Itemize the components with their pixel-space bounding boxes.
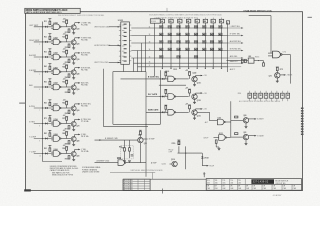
junction row 8: [42, 138, 43, 139]
svg-text:CHK: CHK: [230, 188, 233, 190]
svg-text:R VERT SEL: R VERT SEL: [230, 34, 240, 36]
NAND gate U20A: [53, 39, 61, 45]
wire U135 out: [176, 96, 189, 98]
svg-text:Q116: Q116: [162, 164, 166, 166]
svg-text:7704A MODE SWITCH LOGIC: 7704A MODE SWITCH LOGIC: [243, 10, 272, 13]
svg-text:R93: R93: [65, 159, 68, 161]
svg-text:R95: R95: [119, 146, 122, 148]
resistor R92 pull-up: [66, 147, 68, 150]
diode CR61: [45, 107, 47, 109]
svg-text:Q81: Q81: [243, 132, 246, 134]
wire collector row 6: [74, 104, 76, 107]
NAND gate U90A: [53, 151, 61, 157]
wire left drop: [112, 72, 114, 125]
diode CR113 matrix: [194, 33, 198, 36]
ground row 4: [72, 78, 75, 79]
wire bus IC to matrix: [131, 27, 154, 29]
diode CR135 matrix: [194, 56, 198, 59]
wire matrix right bus: [227, 23, 229, 73]
svg-text:R75: R75: [280, 69, 283, 71]
svg-text:Q10: Q10: [76, 29, 79, 31]
svg-text:B HOR SEL: B HOR SEL: [81, 67, 91, 69]
+5V bus wire: [42, 22, 44, 162]
wire branch out: [202, 165, 208, 167]
svg-text:ADD SEL: ADD SEL: [81, 82, 89, 85]
svg-text:B SWP: B SWP: [149, 139, 156, 141]
transistor Q80: [243, 118, 248, 123]
junction center drop: [145, 124, 146, 125]
svg-text:CHK: CHK: [215, 188, 218, 190]
transistor Q75: [275, 73, 280, 78]
NAND gate U30A: [53, 54, 61, 60]
wire U130 out: [176, 78, 189, 80]
NAND gate U130A: [168, 76, 176, 82]
svg-text:A HORIZ: A HORIZ: [29, 54, 36, 57]
wire row 3 stub: [228, 42, 242, 44]
wire matrix column 5: [196, 23, 198, 67]
wire bundle row7: [138, 66, 155, 68]
wire center bus: [159, 70, 161, 112]
title block: [206, 179, 301, 191]
wire U70A inputs: [268, 52, 272, 54]
svg-text:SEMICONDUCTOR TYPES: SEMICONDUCTOR TYPES: [52, 174, 74, 176]
diode CR21: [45, 41, 47, 43]
wire riser D: [145, 36, 147, 72]
connector stub box: [226, 21, 229, 24]
svg-text:CHOP: CHOP: [203, 138, 209, 140]
svg-text:CHK: CHK: [207, 188, 210, 190]
diode CR110: [162, 111, 164, 113]
wire riser from bottom run: [159, 112, 161, 124]
wire Q80 base: [231, 119, 244, 121]
arrow out row 4: [78, 67, 80, 69]
wire right feed: [230, 101, 232, 137]
wire matrix row 2: [155, 35, 228, 37]
resistor R90 pack: [248, 91, 252, 101]
svg-text:4-3 A REV: 4-3 A REV: [273, 194, 282, 197]
resistor R75: [276, 67, 278, 70]
connector pin P7: [211, 18, 215, 68]
resistor R94 collector: [140, 131, 142, 134]
wire Q116 base: [170, 163, 172, 165]
svg-text:Q95: Q95: [138, 135, 141, 137]
diode CR105 matrix: [194, 26, 198, 29]
ground Q110: [193, 118, 196, 119]
wire right branch: [201, 153, 203, 166]
resistor R53: [68, 89, 70, 92]
resistor R42 pull-up: [66, 65, 68, 68]
wire center drop: [145, 72, 147, 177]
wire gate out row 2: [61, 41, 71, 43]
svg-text:B TRIG SEL: B TRIG SEL: [81, 119, 91, 121]
svg-text:Q135: Q135: [197, 100, 201, 102]
resistor R95 pack: [275, 91, 279, 101]
tick bottom center: [162, 189, 164, 194]
connector pin P6: [203, 18, 207, 68]
svg-text:DLY GATE: DLY GATE: [148, 93, 158, 96]
NAND gate U80A: [53, 136, 61, 142]
diode CR131 matrix: [210, 48, 214, 51]
svg-text:R90: R90: [238, 93, 241, 95]
wire VERT TRIG CMD: [109, 62, 121, 64]
NAND gate U111B: [217, 119, 225, 125]
wire Q95 emitter drop: [139, 143, 141, 163]
ground row 5: [72, 93, 75, 94]
resistor R51: [49, 81, 51, 84]
svg-text:U65: U65: [248, 56, 251, 58]
svg-text:Q70: Q70: [76, 125, 79, 127]
resistor R13: [68, 29, 70, 32]
svg-text:U70: U70: [283, 51, 286, 53]
svg-text:R71: R71: [44, 118, 47, 120]
resistor R80: [235, 116, 238, 118]
NAND gate U110A: [168, 110, 176, 116]
wire input row 3: [34, 56, 53, 58]
junction dot: [185, 153, 186, 154]
ground row 8: [72, 144, 75, 145]
resistor R32 pull-up: [66, 50, 68, 53]
notes text block 2: [82, 166, 101, 173]
diode CR128 matrix: [186, 48, 190, 51]
wire matrix row 7: [155, 66, 228, 68]
svg-text:B HORIZ SEL: B HORIZ SEL: [230, 49, 241, 51]
reference table: [123, 179, 150, 191]
svg-text:Q75: Q75: [269, 75, 272, 77]
diode CR119 matrix: [177, 41, 181, 44]
svg-text:A GATE: A GATE: [257, 118, 264, 121]
svg-text:16: 16: [149, 62, 151, 64]
resistor R63: [68, 110, 70, 113]
resistor R83: [68, 141, 70, 144]
wire input row 8: [34, 138, 53, 140]
wire right drop: [289, 55, 291, 84]
svg-text:VERT & HORIZ MODE SWITCHING NO: VERT & HORIZ MODE SWITCHING NO 9: [26, 12, 62, 14]
resistor R61: [49, 102, 51, 105]
resistor R1301: [165, 72, 167, 75]
NAND gate U10A: [53, 24, 61, 30]
resistor R12 pull-up: [66, 20, 68, 23]
ground R95: [123, 161, 126, 162]
wire gate out row 7: [61, 123, 71, 125]
wire matrix column 1: [161, 23, 163, 67]
wire Q130 collector out: [195, 76, 197, 78]
resistor R93 pack: [264, 91, 268, 101]
resistor R95: [124, 148, 126, 151]
diode CR122 matrix: [202, 41, 206, 44]
svg-text:TOL: TOL: [215, 180, 218, 182]
diode CR108 matrix: [219, 26, 223, 29]
svg-text:CR118: CR118: [204, 157, 209, 159]
wire row 1 stub: [228, 27, 242, 29]
resistor R82 pull-up: [66, 132, 68, 135]
svg-text:R92: R92: [62, 148, 65, 150]
wire U65 out: [254, 60, 264, 62]
transistor Q135: [192, 94, 197, 99]
ground R96: [128, 161, 131, 162]
wire matrix row 4: [155, 50, 228, 52]
svg-text:ADD SEL: ADD SEL: [230, 55, 238, 58]
wire riser B: [137, 51, 139, 72]
wire matrix row 1: [155, 27, 228, 29]
diode CR110 matrix: [168, 33, 172, 36]
resistor R91: [49, 148, 51, 151]
NAND gate U98A: [118, 160, 126, 166]
transistor Q50: [71, 85, 76, 90]
diode CR130 matrix: [202, 48, 206, 51]
diode CR101 matrix: [159, 26, 163, 29]
wire U70A out: [282, 54, 291, 56]
svg-text:OFF: OFF: [169, 152, 172, 154]
svg-text:CHK: CHK: [283, 188, 286, 190]
wire collector row 5: [74, 83, 76, 86]
wire U112C in: [214, 137, 219, 139]
transistor Q110: [192, 110, 197, 115]
wire U98 out: [126, 162, 146, 164]
connector pin P4: [186, 18, 190, 68]
svg-text:A SWP: A SWP: [151, 161, 157, 164]
junction row 2: [42, 41, 43, 42]
wire collector row 4: [74, 68, 76, 71]
diode CR121 matrix: [194, 41, 198, 44]
ground Q130: [193, 85, 196, 86]
wire input row 2: [34, 41, 53, 43]
wire Q81 base: [231, 136, 244, 138]
switch box S1040: [150, 19, 160, 23]
svg-text:R32: R32: [62, 52, 65, 54]
svg-text:Q80: Q80: [76, 140, 79, 142]
connector pin P2: [169, 18, 173, 68]
svg-text:CHK: CHK: [238, 188, 241, 190]
wire Q81 out: [249, 135, 256, 137]
ground CR120: [218, 149, 221, 150]
wire to U111: [209, 112, 211, 120]
resistor R52 pull-up: [66, 80, 68, 83]
arrow out row 9: [78, 149, 80, 151]
svg-text:R72: R72: [62, 118, 65, 120]
svg-text:Q116: Q116: [171, 159, 175, 161]
arrow out row 3: [78, 52, 80, 54]
resistor R97 pack: [286, 91, 290, 101]
svg-text:CHK: CHK: [263, 188, 266, 190]
diode CR125 matrix: [159, 48, 163, 51]
matrix column end ticks: [162, 68, 222, 69]
wire matrix column 2: [170, 23, 172, 67]
svg-text:R52: R52: [62, 82, 65, 84]
arrow out row 2: [78, 37, 80, 39]
svg-text:L VERT SEL: L VERT SEL: [81, 22, 91, 24]
capacitor C95: [131, 155, 134, 156]
wire input U135: [146, 96, 168, 98]
diode CR135: [162, 96, 164, 98]
diode CR116 matrix: [219, 33, 223, 36]
svg-text:R31: R31: [44, 51, 47, 53]
svg-text:.005: .005: [230, 183, 233, 185]
svg-text:PARTIAL A1 MAIN INTERFACE BOAR: PARTIAL A1 MAIN INTERFACE BOARD: [131, 169, 164, 172]
wire pullup row 5: [49, 79, 51, 82]
arrow out row 5: [78, 82, 80, 84]
wire matrix column 4: [188, 23, 190, 67]
svg-text:R53: R53: [65, 92, 68, 94]
transistor Q10: [71, 25, 76, 30]
resistor R115: [178, 141, 180, 144]
resistor R119: [178, 141, 180, 144]
svg-text:337-1439-02: 337-1439-02: [253, 181, 269, 184]
svg-text:A HOR SEL: A HOR SEL: [81, 52, 91, 55]
tick mark top: [166, 8, 168, 12]
svg-text:CHK: CHK: [222, 188, 225, 190]
wire pullup row 6: [49, 100, 51, 103]
transistor Q40: [71, 70, 76, 75]
svg-text:A TRIG SEL: A TRIG SEL: [81, 103, 91, 106]
diode CR91: [45, 153, 47, 155]
junction row 4: [42, 71, 43, 72]
wire R119 drop: [178, 146, 180, 153]
svg-text:Q130: Q130: [197, 82, 201, 84]
bottom strip box: [123, 178, 206, 180]
resistor R43: [68, 74, 70, 77]
resistor R160: [241, 59, 243, 62]
junction U135: [160, 96, 161, 97]
wire matrix row 3: [155, 42, 228, 44]
wire collector row 7: [74, 119, 76, 122]
tick mark title: [203, 172, 205, 177]
diode CR11: [45, 26, 47, 28]
svg-text:R62: R62: [62, 103, 65, 105]
arrow out row 7: [78, 119, 80, 121]
wire Q95 out: [143, 138, 148, 140]
wire row 5 stub: [228, 57, 242, 59]
wire matrix column 8: [221, 23, 223, 67]
wire collector row 2: [74, 38, 76, 41]
svg-text:14: 14: [149, 49, 151, 51]
svg-text:R165: R165: [255, 56, 259, 58]
wire left drop 2: [102, 69, 104, 127]
wire pullup row 2: [49, 34, 51, 37]
diode CR51: [45, 86, 47, 88]
wire collector row 9: [74, 149, 76, 152]
svg-text:TOL: TOL: [230, 180, 233, 182]
svg-text:Q50: Q50: [76, 89, 79, 91]
svg-text:R81: R81: [44, 133, 47, 135]
arrow out row 1: [78, 22, 80, 24]
sheet tab mark right: [308, 17, 312, 18]
svg-text:Q130: Q130: [165, 71, 169, 73]
junction row 3: [42, 56, 43, 57]
wire top right run: [249, 15, 271, 17]
wire collector row 8: [74, 134, 76, 137]
svg-text:CHK: CHK: [253, 188, 256, 190]
matrix left bus: [154, 24, 156, 77]
svg-text:TOL: TOL: [207, 180, 210, 182]
NAND gate U50A: [53, 84, 61, 90]
resistor R96 pack: [281, 91, 285, 101]
wire pullup row 8: [49, 130, 51, 133]
corner register mark: [24, 189, 31, 191]
diode CR114 matrix: [202, 33, 206, 36]
resistor R62 pull-up: [66, 101, 68, 104]
svg-text:Q20: Q20: [76, 44, 79, 46]
ground row 7: [72, 129, 75, 130]
resistor R166: [263, 63, 265, 66]
transistor Q70: [71, 121, 76, 126]
svg-text:VERT MODE CMD: VERT MODE CMD: [94, 26, 110, 28]
resistor R1351: [165, 90, 167, 93]
svg-text:17: 17: [149, 65, 151, 67]
notes text block: [50, 166, 79, 177]
wire inter-row link: [159, 84, 186, 86]
NAND gate U60A: [53, 105, 61, 111]
svg-text:B GATE SEL: B GATE SEL: [148, 75, 160, 78]
svg-text:AUX Y: AUX Y: [230, 68, 236, 71]
wire riser C: [141, 43, 143, 72]
connector pin P1: [160, 18, 164, 68]
svg-text:A SWEEP CMD: A SWEEP CMD: [97, 160, 110, 163]
wire right riser: [270, 16, 272, 53]
diode CR124 matrix: [219, 41, 223, 44]
wire U112C out: [227, 137, 231, 139]
wire collector row 3: [74, 53, 76, 56]
svg-text:UNDER COND GIVEN: UNDER COND GIVEN: [82, 171, 100, 173]
resistor R1302: [189, 72, 191, 75]
svg-text:CIRCUIT BD: CIRCUIT BD: [275, 183, 286, 185]
wire U98 in: [95, 162, 119, 164]
svg-text:13: 13: [149, 41, 151, 43]
wire assembly run: [110, 172, 155, 174]
wire input U110: [146, 111, 168, 113]
svg-text:CHK: CHK: [293, 188, 296, 190]
wire pullup row 4: [49, 64, 51, 67]
IC U65: [248, 58, 254, 63]
diode CR111 matrix: [177, 33, 181, 36]
title block part number (inverse): [251, 179, 274, 184]
revision sidebar: [301, 108, 304, 136]
diode CR120 matrix: [186, 41, 190, 44]
diode CR112 matrix: [186, 33, 190, 36]
center column gate rows: [146, 70, 207, 86]
wire matrix column 7: [212, 23, 214, 67]
resistor R81: [235, 133, 238, 135]
wire Q110 out link: [197, 111, 209, 113]
wire B sweep: [95, 139, 138, 141]
svg-text:R12: R12: [62, 21, 65, 23]
junction row 7: [42, 123, 43, 124]
svg-text:CHK: CHK: [273, 188, 276, 190]
wire IC bottom stub: [122, 64, 124, 71]
ground row 1: [72, 33, 75, 34]
resistor R81: [49, 133, 51, 136]
diode CR133 matrix: [159, 56, 163, 59]
border frame: [26, 12, 303, 191]
resistor R11: [49, 21, 51, 24]
diode CR127 matrix: [177, 48, 181, 51]
ground Q135: [193, 102, 196, 103]
NAND gate U112C: [219, 135, 227, 141]
svg-text:R82: R82: [62, 133, 65, 135]
svg-text:R91: R91: [44, 148, 47, 150]
wire gate out row 3: [61, 56, 71, 58]
svg-text:R21: R21: [44, 36, 47, 38]
diode CR130: [162, 78, 164, 80]
wire pullup row 3: [49, 49, 51, 52]
svg-text:ALL RESISTORS 1K UNLESS NOTED: ALL RESISTORS 1K UNLESS NOTED SEL VALUE: [239, 100, 281, 103]
arrow out row 8: [78, 134, 80, 136]
resistor R93: [68, 156, 70, 159]
NAND gate U70A: [53, 121, 61, 127]
junction row 6: [42, 107, 43, 108]
ground row 6: [72, 114, 75, 115]
diode CR81: [45, 138, 47, 140]
resistor R33: [68, 59, 70, 62]
